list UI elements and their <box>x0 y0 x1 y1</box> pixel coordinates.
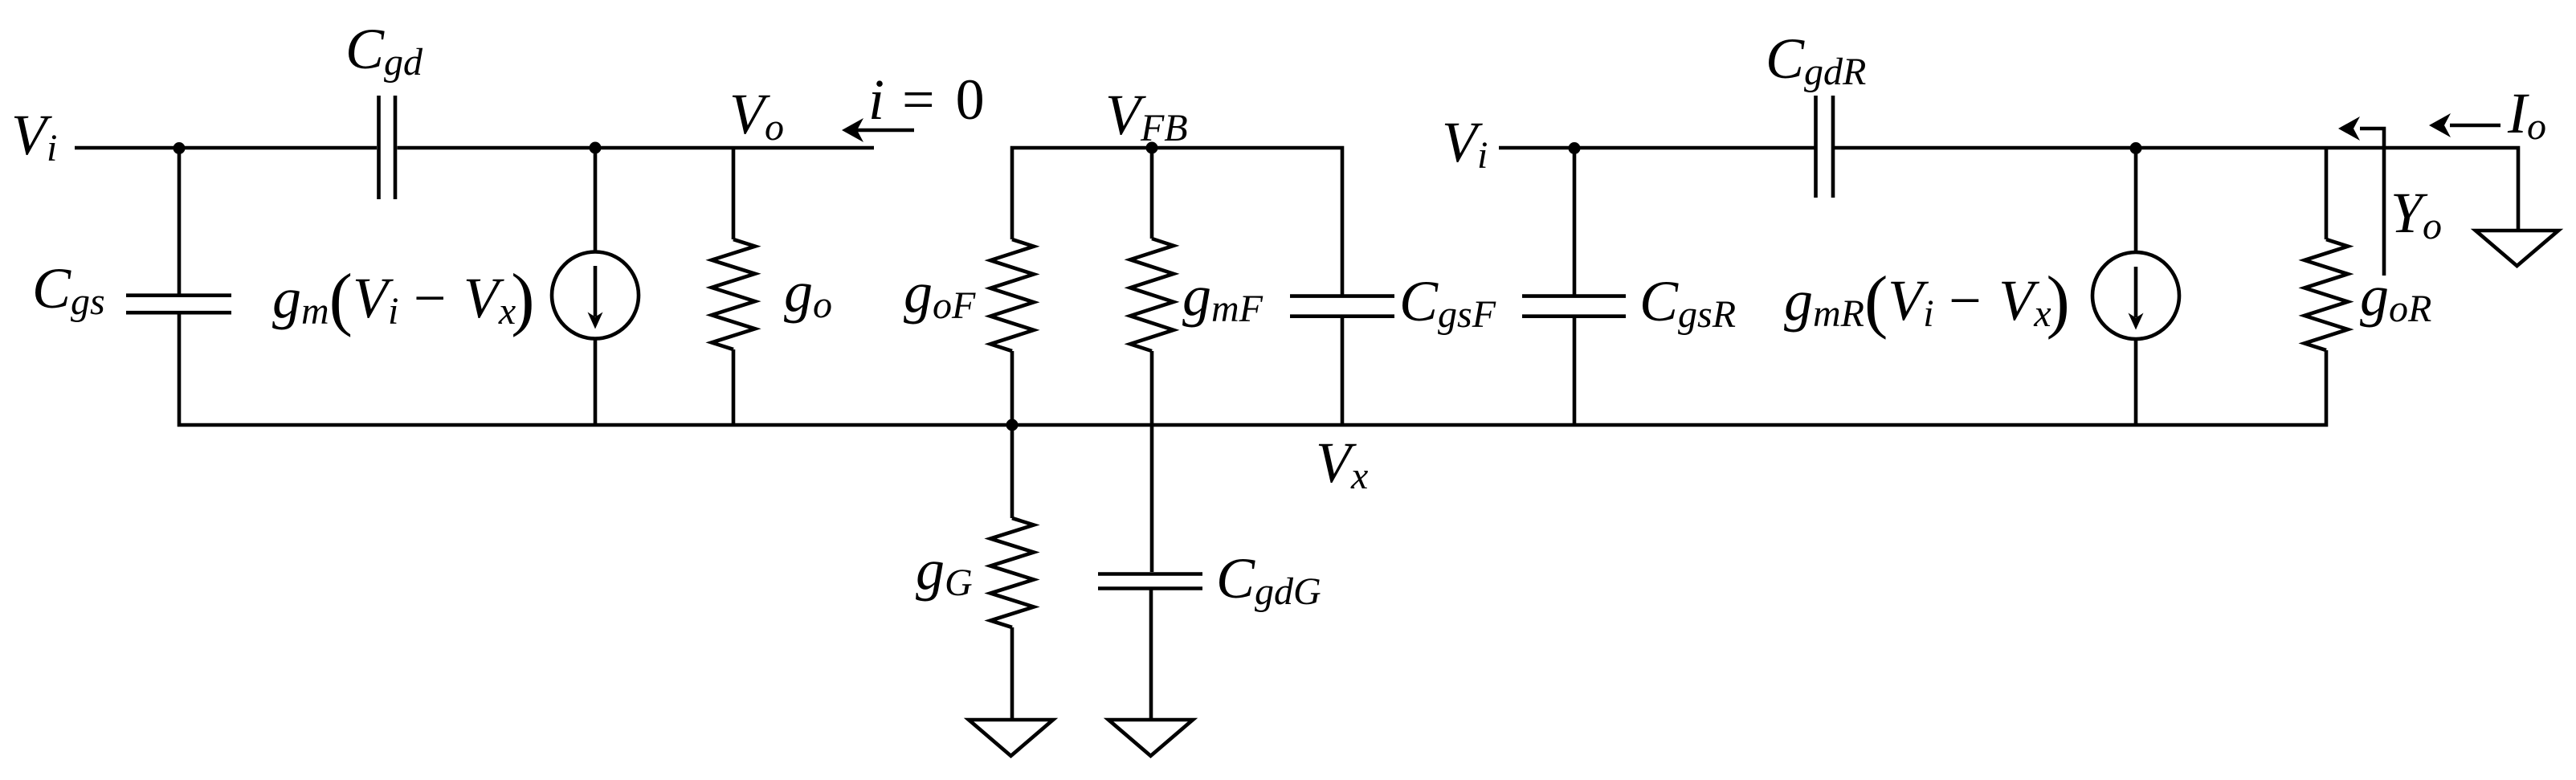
svg-text:i = 0: i = 0 <box>868 67 988 132</box>
wire junction dot at right current-source top <box>2130 142 2142 154</box>
resistor gmF <box>1150 148 1154 239</box>
wire gmF down through rail to CgdG <box>1150 351 1154 572</box>
resistor go <box>732 148 736 239</box>
arrow inside current source U1 <box>594 266 598 316</box>
resistor gG below rail <box>1010 425 1014 518</box>
ground symbol under CgdG <box>1108 720 1193 756</box>
wire junction dot on bottom rail at gG branch <box>1006 419 1019 431</box>
capacitor CgsF <box>1290 296 1394 316</box>
wire Cgs bottom / bottom rail / up to goR bottom <box>179 315 2326 426</box>
arrow Yo (looking-into-port hook arrow) <box>2360 129 2384 276</box>
arrow Io (output current, pointing left) <box>2450 124 2500 128</box>
wire top-right from Vi to CgdR <box>1499 146 1815 150</box>
resistor goF <box>990 239 1034 351</box>
wire junction dot at Vi node <box>174 142 186 154</box>
capacitor Cgs <box>126 296 231 313</box>
capacitor CgsR <box>1522 296 1626 316</box>
ground symbol under gG <box>969 720 1053 756</box>
current source U2 gmR(Vi-Vx) circle <box>2134 148 2138 425</box>
arrow inside current source U2 <box>2134 267 2138 317</box>
wire junction dot at VFB node <box>1146 142 1158 154</box>
wire Vi node down to Cgs <box>178 148 182 294</box>
wire right Vi node down to CgsR <box>1573 148 1577 295</box>
wire top-right from CgdR to right edge, down to ground <box>1835 148 2518 231</box>
arrow i=0 (current into node, pointing left) <box>856 129 914 133</box>
capacitor CgdG <box>1098 574 1202 589</box>
wire VFB top rail of middle section with goF and CgsF corner leads <box>1012 148 1342 295</box>
wire top-left from Vi to Cgd <box>75 146 377 150</box>
wire junction dot at right Vi node <box>1569 142 1581 154</box>
resistor goR <box>2325 148 2329 239</box>
capacitor CgdR (series in top wire) <box>1816 96 1834 198</box>
current source U1 gm(Vi-Vx) circle <box>594 148 598 425</box>
wire top-left from Cgd to Vo / i=0 <box>398 146 875 150</box>
wire junction dot at current-source top <box>590 142 602 154</box>
ground symbol at right output <box>2476 231 2558 266</box>
capacitor Cgd (series in top wire) <box>379 96 396 199</box>
